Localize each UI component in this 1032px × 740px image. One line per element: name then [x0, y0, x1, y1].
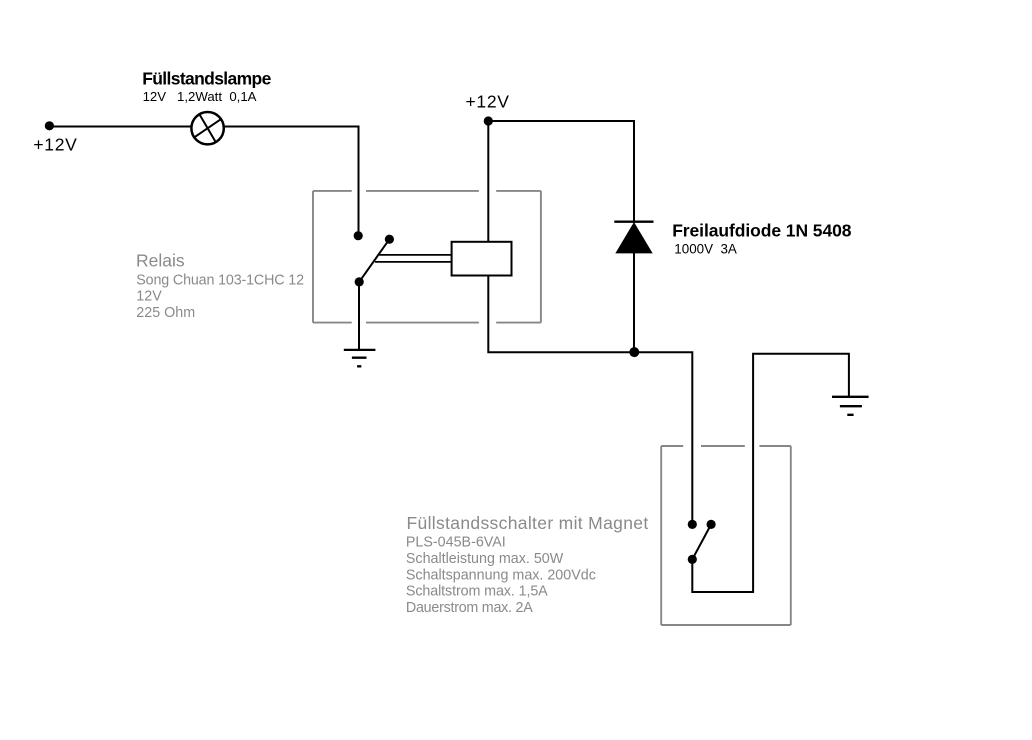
junction node	[629, 347, 639, 357]
svg-text:+12V: +12V	[466, 91, 510, 111]
wire switch return to ground right	[692, 354, 849, 592]
diode D1 triangle	[616, 223, 652, 253]
svg-text:Füllstandslampe: Füllstandslampe	[142, 68, 271, 88]
wire lamp to relay switch	[224, 127, 359, 236]
svg-text:225 Ohm: 225 Ohm	[136, 305, 195, 321]
svg-text:12V 1,2Watt 0,1A: 12V 1,2Watt 0,1A	[143, 89, 257, 104]
float switch box outline	[661, 446, 791, 625]
ground left	[344, 350, 376, 366]
svg-text:Freilaufdiode 1N 5408: Freilaufdiode 1N 5408	[672, 220, 852, 240]
relay switch common contact	[354, 231, 363, 240]
relay switch lower contact	[355, 277, 364, 286]
relay switch pivot contact	[385, 235, 394, 244]
node +12V left	[45, 121, 54, 130]
ground right	[832, 397, 869, 415]
wire diode to junction	[633, 253, 635, 352]
svg-text:12V: 12V	[136, 289, 162, 305]
wire coil bottom to switch box	[488, 276, 692, 521]
float switch blade	[692, 524, 711, 559]
float switch lower contact	[688, 555, 697, 564]
float switch left contact	[688, 520, 697, 529]
svg-text:Dauerstrom max. 2A: Dauerstrom max. 2A	[406, 600, 533, 616]
wire +12V node to diode	[488, 121, 634, 222]
svg-text:Schaltspannung max. 200Vdc: Schaltspannung max. 200Vdc	[406, 567, 596, 583]
svg-text:Schaltstrom max. 1,5A: Schaltstrom max. 1,5A	[406, 584, 548, 600]
svg-text:Füllstandsschalter mit Magnet: Füllstandsschalter mit Magnet	[407, 513, 649, 533]
relay box outline	[313, 191, 541, 323]
node +12V top	[484, 116, 493, 125]
float switch right contact	[707, 520, 716, 529]
lamp L1 Füllstandslampe	[191, 112, 223, 144]
svg-text:PLS-045B-6VAI: PLS-045B-6VAI	[406, 535, 506, 551]
relay switch blade	[359, 239, 389, 282]
relay armature linkage	[375, 255, 452, 262]
relay coil K1	[452, 242, 512, 276]
svg-text:Schaltleistung max. 50W: Schaltleistung max. 50W	[406, 551, 564, 567]
wire +12V node to coil	[487, 121, 489, 242]
svg-text:Song Chuan 103-1CHC 12: Song Chuan 103-1CHC 12	[136, 272, 304, 288]
wire switch to ground	[358, 282, 360, 350]
svg-text:Relais: Relais	[136, 251, 185, 271]
svg-text:+12V: +12V	[33, 134, 77, 154]
svg-text:1000V 3A: 1000V 3A	[674, 241, 737, 256]
wire +12V to lamp	[49, 126, 191, 128]
diode D1 cathode bar	[614, 220, 653, 222]
